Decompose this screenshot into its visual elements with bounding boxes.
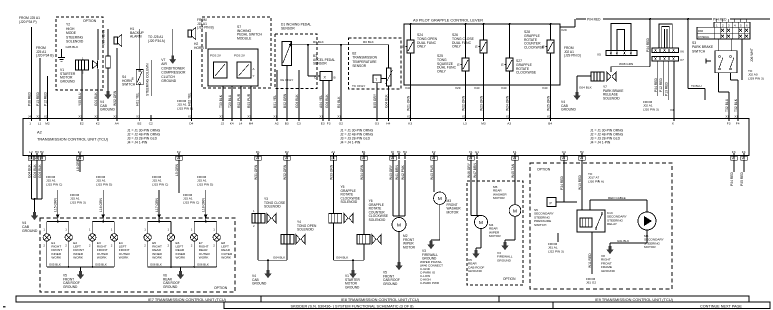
svg-text:E2: E2 (80, 121, 84, 125)
wire X7 outputs (657, 61, 659, 96)
wire F3 stub bottom (733, 160, 735, 172)
wire P06 RED (31, 27, 33, 119)
svg-text:A4: A4 (115, 121, 119, 125)
svg-text:B01 YEL: B01 YEL (273, 95, 277, 108)
svg-text:X3: X3 (361, 156, 365, 160)
svg-text:HORN: HORN (194, 46, 204, 50)
svg-text:X2: X2 (29, 156, 33, 160)
svg-text:R02 PUR: R02 PUR (237, 93, 241, 108)
ground V4 cab right (576, 92, 579, 96)
svg-text:SOLENOID: SOLENOID (66, 40, 84, 44)
svg-text:MOTOR: MOTOR (493, 196, 505, 200)
svg-text:E2: E2 (78, 150, 82, 154)
svg-text:R03 PUR: R03 PUR (247, 93, 251, 108)
svg-text:OPTION: OPTION (503, 277, 516, 281)
svg-text:AT PEDAL: AT PEDAL (698, 36, 710, 39)
svg-text:F4: F4 (736, 121, 740, 125)
svg-text:B1: B1 (362, 150, 366, 154)
svg-text:W02 ORN: W02 ORN (113, 90, 117, 106)
svg-text:SOLENOID: SOLENOID (341, 200, 358, 204)
svg-text:E3: E3 (321, 121, 325, 125)
wire A/C clutch (172, 29, 174, 56)
svg-text:A3: A3 (507, 121, 511, 125)
svg-text:W10 RED: W10 RED (578, 175, 582, 190)
svg-text:(J20 PIN 3): (J20 PIN 3) (643, 107, 659, 111)
wire TCU ground group (31, 160, 33, 199)
svg-text:B02 GRN: B02 GRN (283, 93, 287, 108)
lamp E1 (46, 222, 48, 234)
svg-text:P04 RED: P04 RED (587, 17, 601, 21)
motor M4 rear wiper (470, 160, 472, 215)
bar IE8 TCU (261, 296, 499, 302)
scan speck (3, 306, 6, 308)
svg-text:X3: X3 (431, 156, 435, 160)
svg-text:W25 ORN: W25 ORN (547, 95, 551, 111)
svg-text:W41 BRN: W41 BRN (395, 165, 399, 180)
wire stub L8 ORN (79, 160, 81, 172)
ground V5 front cab roof 2 (398, 262, 401, 266)
switch S24 tong open (407, 40, 414, 53)
svg-text:IE8 TRANSMISSION CONTROL UNIT: IE8 TRANSMISSION CONTROL UNIT (TCU) (341, 297, 420, 302)
svg-text:H4: H4 (403, 150, 407, 154)
wire grapple ground (333, 223, 335, 260)
svg-text:P04 RED: P04 RED (654, 77, 658, 92)
svg-text:X1: X1 (273, 115, 277, 119)
svg-text:MODULE: MODULE (237, 36, 252, 40)
svg-text:A2: A2 (275, 121, 279, 125)
ground V3 firewall (430, 241, 433, 245)
svg-text:L15 ORN: L15 ORN (54, 197, 58, 212)
svg-text:X3: X3 (219, 115, 223, 119)
svg-text:P13 RED: P13 RED (665, 81, 669, 96)
svg-text:H1: H1 (397, 150, 401, 154)
svg-text:X2: X2 (547, 115, 551, 119)
svg-text:SENSOR: SENSOR (281, 27, 295, 31)
svg-text:P06 RED: P06 RED (28, 91, 32, 106)
svg-text:CLOCKWISE: CLOCKWISE (516, 71, 537, 75)
motor M3 front washer (433, 160, 435, 192)
svg-text:A: A (253, 67, 255, 71)
svg-text:SOLENOID: SOLENOID (264, 205, 281, 209)
svg-text:CLOCKWISE: CLOCKWISE (524, 46, 545, 50)
wire TO BLU (687, 19, 689, 88)
svg-text:X3: X3 (331, 156, 335, 160)
svg-text:MOTOR: MOTOR (403, 245, 416, 249)
svg-text:WORK: WORK (221, 256, 232, 260)
svg-text:X1: X1 (731, 156, 735, 160)
pins TCU bottom edge (31, 153, 33, 159)
svg-text:M: M (438, 196, 442, 202)
svg-text:L8 ORN: L8 ORN (76, 158, 80, 171)
wire feed3 (158, 190, 160, 222)
svg-text:H2: H2 (40, 150, 44, 154)
wire Y2 feed (97, 29, 99, 60)
svg-text:PAR: PAR (698, 29, 703, 33)
svg-text:W21 ORN: W21 ORN (407, 95, 411, 111)
svg-text:X29: X29 (561, 28, 567, 32)
svg-text:GROUND: GROUND (161, 79, 176, 83)
svg-text:P04 RED: P04 RED (713, 17, 727, 21)
svg-text:X3: X3 (512, 156, 516, 160)
switch S3 contacts (715, 51, 737, 73)
svg-text:X1: X1 (337, 115, 341, 119)
svg-text:C4: C4 (562, 150, 566, 154)
svg-text:WORK: WORK (73, 256, 84, 260)
svg-text:L5 ORN: L5 ORN (175, 163, 179, 176)
svg-text:H01 YEL: H01 YEL (136, 93, 140, 106)
svg-text:OPTION: OPTION (537, 168, 551, 172)
svg-text:X29: X29 (455, 86, 461, 90)
svg-text:X2: X2 (136, 115, 140, 119)
svg-text:GROUND: GROUND (383, 282, 398, 286)
svg-text:X2: X2 (36, 115, 40, 119)
svg-text:T0 BLU: T0 BLU (691, 84, 702, 88)
svg-text:W43 PUR: W43 PUR (430, 165, 434, 180)
svg-text:G04 BLK: G04 BLK (295, 94, 299, 108)
svg-text:ONLY: ONLY (417, 45, 427, 49)
ground V1 starter motor (352, 270, 355, 274)
svg-text:WORK: WORK (176, 256, 187, 260)
svg-text:P04 RED: P04 RED (646, 37, 650, 52)
svg-text:B4: B4 (548, 121, 552, 125)
svg-text:X2: X2 (506, 115, 510, 119)
option box Y2 high mode steering (56, 17, 103, 90)
svg-text:X2: X2 (407, 115, 411, 119)
connector X6 (652, 48, 679, 53)
svg-text:H3: H3 (35, 150, 39, 154)
motor M2 front wiper (392, 160, 394, 216)
svg-text:X3: X3 (255, 156, 259, 160)
wire feed4 (205, 190, 207, 222)
svg-text:F3: F3 (727, 121, 731, 125)
svg-text:SWITCH: SWITCH (122, 83, 136, 87)
svg-text:WORK: WORK (119, 256, 130, 260)
svg-text:W08 GRN: W08 GRN (619, 62, 633, 66)
svg-text:W31 ORN: W31 ORN (254, 164, 258, 180)
wire C4 feed (563, 160, 565, 202)
switch S28 grapple rotate ccw (547, 40, 554, 53)
svg-text:SWITCH: SWITCH (534, 223, 546, 227)
connector X5 (611, 24, 631, 51)
svg-text:M: M (513, 208, 517, 214)
svg-text:GROUND: GROUND (422, 257, 437, 261)
svg-text:Y05 BLU: Y05 BLU (78, 92, 82, 106)
svg-text:X6: X6 (680, 50, 684, 54)
svg-text:X7: X7 (680, 58, 684, 62)
svg-text:K2: K2 (96, 121, 100, 125)
wire H2 feed (581, 160, 583, 210)
svg-text:GROUND: GROUND (497, 258, 512, 262)
wire S3 feeds (718, 39, 720, 51)
svg-text:C3: C3 (297, 121, 301, 125)
svg-text:ONLY: ONLY (452, 45, 462, 49)
connector X7 (652, 56, 679, 61)
svg-text:G01 BLK: G01 BLK (94, 92, 98, 106)
svg-text:G06 BLK: G06 BLK (197, 263, 209, 267)
option box work lights (40, 218, 235, 292)
ground V4 cab bottom left (33, 212, 36, 216)
svg-text:X5: X5 (597, 53, 601, 57)
wire Y7 ground G04 BLK (577, 75, 591, 77)
lamp E2 (68, 222, 70, 234)
svg-text:L1: L1 (38, 121, 42, 125)
svg-text:G04 BLK: G04 BLK (336, 256, 348, 260)
svg-text:(J29 PIN 3): (J29 PIN 3) (748, 76, 764, 80)
svg-text:SOLENOID: SOLENOID (603, 96, 620, 100)
svg-text:G1: G1 (475, 150, 479, 154)
wire Y2 out (81, 70, 83, 119)
wire S7 feed (205, 32, 207, 49)
wire P03 RED (39, 58, 41, 119)
svg-text:X3: X3 (561, 156, 565, 160)
svg-text:L18 ORN: L18 ORN (202, 197, 206, 212)
switch S3 table (697, 27, 750, 39)
svg-text:(J15 PIN C): (J15 PIN C) (183, 200, 199, 204)
svg-text:WORK: WORK (152, 256, 163, 260)
svg-text:IE9 TRANSMISSION CONTROL UNIT: IE9 TRANSMISSION CONTROL UNIT (TCU) (595, 297, 674, 302)
wire S7 pins (222, 86, 224, 119)
option box rear wiper (467, 181, 523, 285)
lamp E5 (147, 222, 149, 234)
svg-text:R0 BLK: R0 BLK (363, 40, 375, 44)
svg-text:F2: F2 (432, 150, 436, 154)
bar continue next page (553, 302, 770, 309)
svg-text:R0 BLK: R0 BLK (337, 96, 341, 108)
wire P12 RED (47, 76, 49, 119)
actuator icon S3 (706, 60, 711, 62)
switch block S7 (208, 49, 258, 86)
wire rear lamp ground rail (148, 266, 217, 268)
lamp E7 (193, 222, 195, 234)
svg-text:X2: X2 (113, 115, 117, 119)
svg-text:G3: G3 (375, 121, 379, 125)
svg-text:P34 RED: P34 RED (560, 175, 564, 190)
switch S27 grapple rotate cw (506, 58, 513, 71)
svg-text:W40 GRY: W40 GRY (389, 164, 393, 180)
svg-text:IE7 TRANSMISSION CONTROL UNIT: IE7 TRANSMISSION CONTROL UNIT (TCU) (148, 297, 227, 302)
svg-text:(J15 PIN B): (J15 PIN B) (197, 26, 214, 30)
switch S26 tong close (480, 40, 487, 53)
lamp E6 (170, 222, 172, 234)
svg-text:D2: D2 (285, 150, 289, 154)
svg-text:(J20 P34 P): (J20 P34 P) (19, 20, 37, 24)
svg-text:SKIDDER (S.N. 630436- ) SYSTEM: SKIDDER (S.N. 630436- ) SYSTEM FUNCTIONA… (290, 304, 414, 308)
svg-text:L17 ORN: L17 ORN (155, 197, 159, 212)
svg-text:W04 ORN: W04 ORN (102, 29, 106, 45)
svg-text:J4 = J4 1-PIN: J4 = J4 1-PIN (590, 141, 611, 145)
svg-text:X3: X3 (78, 115, 82, 119)
svg-text:G06 BLK: G06 BLK (150, 263, 162, 267)
svg-text:G04 BLK: G04 BLK (273, 256, 285, 260)
svg-text:W23 ORN: W23 ORN (480, 95, 484, 111)
svg-text:G6L BLK: G6L BLK (617, 239, 629, 243)
wire M2 ground (398, 232, 400, 263)
svg-text:C-PARK PWR: C-PARK PWR (420, 281, 440, 285)
ground A/C clutch (171, 56, 174, 60)
svg-text:ONLY: ONLY (437, 70, 447, 74)
svg-text:X2: X2 (94, 115, 98, 119)
svg-text:(J20 P34 B): (J20 P34 B) (36, 54, 54, 58)
svg-text:WORK: WORK (199, 256, 210, 260)
wire lamp pair rails (47, 221, 69, 223)
svg-text:M: M (397, 222, 401, 228)
svg-text:W34 ORN: W34 ORN (360, 164, 364, 180)
svg-text:W22 ORN: W22 ORN (462, 95, 466, 111)
svg-text:(J20 P34 A): (J20 P34 A) (148, 39, 165, 43)
svg-text:GROUND: GROUND (22, 229, 38, 233)
svg-text:GROUND: GROUND (100, 108, 115, 112)
svg-text:X3: X3 (247, 115, 251, 119)
svg-text:X1: X1 (319, 115, 323, 119)
svg-text:STEERING COLUMN: STEERING COLUMN (146, 63, 150, 96)
svg-text:B: B (334, 76, 336, 80)
svg-text:X40: X40 (501, 86, 507, 90)
svg-text:MOTOR: MOTOR (644, 245, 656, 249)
svg-text:W32 ORN: W32 ORN (283, 164, 287, 180)
node steering column boundary (150, 60, 152, 96)
ground G05 earth (58, 57, 65, 59)
wire B2 pins (340, 45, 342, 119)
wire H2 (191, 50, 193, 119)
svg-text:X1: X1 (734, 115, 738, 119)
svg-text:TC ONLY: TC ONLY (352, 84, 366, 88)
wire J06 WHT (741, 39, 743, 80)
svg-text:1: 1 (29, 121, 31, 125)
svg-text:IO: IO (391, 150, 395, 154)
svg-text:TRANSMISSION CONTROL UNIT (TCU: TRANSMISSION CONTROL UNIT (TCU) (37, 137, 109, 142)
svg-text:T: T (375, 78, 377, 82)
svg-text:A04 YEL: A04 YEL (319, 95, 323, 108)
svg-text:M3: M3 (481, 121, 486, 125)
svg-text:L4: L4 (239, 121, 243, 125)
svg-text:M2: M2 (45, 121, 50, 125)
svg-text:W45 TAN: W45 TAN (511, 163, 515, 178)
wire feed2 (102, 190, 104, 222)
relay K13 secondary steering (577, 210, 605, 232)
bar IE7 TCU (16, 296, 261, 302)
svg-text:GROUND: GROUND (163, 285, 178, 289)
controller A2 TCU box (23, 119, 749, 156)
sensor B2 transmission temperature (349, 38, 401, 89)
svg-text:W11 RED: W11 RED (588, 253, 592, 268)
svg-text:J4 = J4 1-PIN: J4 = J4 1-PIN (340, 141, 361, 145)
svg-text:OPTION: OPTION (214, 286, 228, 290)
svg-text:G2: G2 (339, 121, 343, 125)
lamp E3 (91, 222, 93, 234)
svg-text:X40: X40 (542, 86, 548, 90)
wire stub S4 ORN (178, 160, 180, 193)
bar title (224, 302, 553, 309)
node FROM J61 G2 (591, 232, 593, 274)
svg-text:X2: X2 (39, 156, 43, 160)
svg-text:WORK: WORK (51, 256, 62, 260)
svg-text:(J29 PIN D): (J29 PIN D) (564, 54, 581, 58)
svg-text:X2: X2 (462, 115, 466, 119)
svg-text:X3: X3 (284, 156, 288, 160)
svg-text:L16 ORN: L16 ORN (99, 197, 103, 212)
svg-text:W42 PNK: W42 PNK (401, 165, 405, 180)
svg-text:W47 BRN: W47 BRN (473, 163, 477, 178)
svg-text:L2: L2 (29, 150, 33, 154)
svg-text:X2: X2 (44, 115, 48, 119)
svg-text:CONTINUE NEXT PAGE: CONTINUE NEXT PAGE (700, 304, 742, 308)
svg-text:P05 RED: P05 RED (740, 171, 744, 186)
svg-text:L3: L3 (463, 121, 467, 125)
ground V5 rear cab roof (475, 250, 478, 254)
wire red cable (589, 200, 591, 210)
alarm H1 backup (114, 37, 117, 44)
svg-text:F3: F3 (327, 121, 331, 125)
svg-text:X3: X3 (468, 156, 472, 160)
svg-text:RED CABLE: RED CABLE (608, 196, 626, 200)
svg-text:H02 YEL: H02 YEL (188, 93, 192, 106)
ground V6 rear cab roof (179, 271, 182, 275)
svg-text:SWITCH: SWITCH (692, 49, 706, 53)
svg-text:R0 BLK: R0 BLK (313, 40, 325, 44)
svg-text:P04 RED: P04 RED (730, 171, 734, 186)
lamp E8 (216, 222, 218, 234)
lamp E4 (113, 222, 115, 234)
svg-text:X40: X40 (474, 86, 480, 90)
svg-text:X2: X2 (34, 156, 38, 160)
svg-text:T30 BLK: T30 BLK (219, 94, 223, 108)
wire BLK cable (646, 230, 648, 243)
svg-text:G05 BLK: G05 BLK (95, 263, 107, 267)
wire W08 GRN (649, 19, 651, 67)
diode CR1 (93, 61, 98, 69)
svg-text:X3: X3 (176, 156, 180, 160)
motor M6 secondary steering (638, 212, 656, 230)
svg-text:T32 BLK: T32 BLK (734, 98, 738, 112)
wire M3 ground (439, 204, 441, 240)
svg-text:POS 2V: POS 2V (234, 54, 245, 58)
wire S3 outputs (718, 73, 720, 92)
svg-text:SOLENOID: SOLENOID (297, 228, 314, 232)
svg-text:X40: X40 (405, 86, 411, 90)
wire P04 RED rail (560, 26, 575, 28)
svg-text:K4: K4 (230, 121, 234, 125)
svg-text:(J15 PIN C): (J15 PIN C) (152, 182, 168, 186)
svg-text:(J22 PIN 3): (J22 PIN 3) (548, 249, 564, 253)
svg-text:(J30 PIN A): (J30 PIN A) (588, 179, 604, 183)
svg-text:G05 BLK: G05 BLK (66, 45, 80, 49)
svg-text:D4: D4 (189, 121, 193, 125)
svg-text:M4: M4 (249, 121, 254, 125)
svg-text:WORK: WORK (97, 256, 108, 260)
solenoid Y7 park brake release (591, 72, 604, 81)
diode Y7 (607, 72, 611, 81)
svg-text:X1: X1 (725, 115, 729, 119)
wire B3 pins (307, 45, 309, 76)
svg-text:F4: F4 (742, 150, 746, 154)
svg-text:B3: B3 (285, 121, 289, 125)
wire R0 BLK bus (291, 44, 389, 46)
svg-text:B2: B2 (138, 121, 142, 125)
svg-text:(J15 PIN 3): (J15 PIN 3) (70, 200, 86, 204)
svg-text:G04 BLK: G04 BLK (385, 94, 389, 108)
svg-text:P12 RED: P12 RED (44, 91, 48, 106)
ground V4 cab solenoids (267, 270, 270, 274)
wire M5 ground (514, 216, 516, 240)
svg-text:(J15 PIN B): (J15 PIN B) (177, 106, 193, 110)
ground V5 front cab roof (79, 271, 82, 275)
wire M4 ground (480, 229, 482, 249)
wire X6 feeds (659, 24, 672, 48)
svg-text:OPTION: OPTION (83, 19, 97, 23)
wire tong ground (257, 223, 259, 260)
svg-text:GROUND: GROUND (60, 79, 75, 83)
module S7 inching pedal switch (202, 17, 271, 88)
